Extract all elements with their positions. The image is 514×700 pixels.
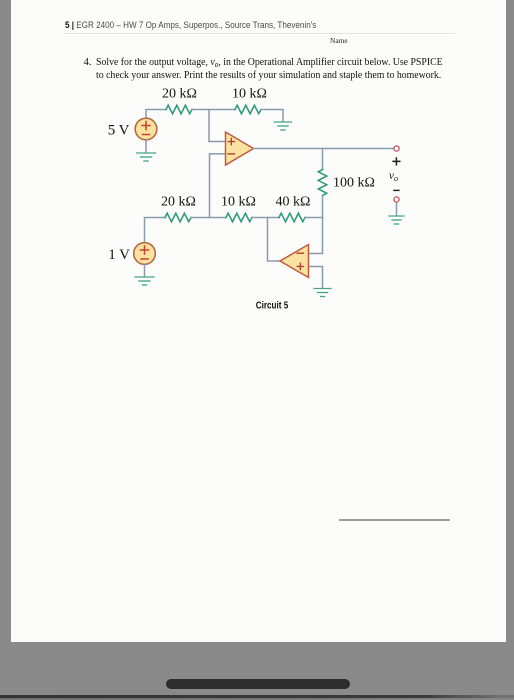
wire 100k to bottom node (322, 196, 324, 218)
wire node E down to U2 - input (309, 218, 323, 254)
wire node B down to 100k (322, 149, 324, 170)
wire node D (252, 217, 279, 219)
resistor 20k top (166, 105, 192, 113)
bottom row: 1V up to row (145, 218, 166, 244)
U1 plus input mark (228, 139, 234, 145)
svg-text:100 kΩ: 100 kΩ (333, 176, 375, 191)
svg-text:40 kΩ: 40 kΩ (276, 195, 311, 210)
resistor 10k bottom (226, 213, 252, 221)
wire 1V to ground (144, 264, 146, 276)
wire terminal to ground (396, 202, 398, 215)
label vo minus (393, 189, 399, 191)
ground 1V (135, 277, 154, 285)
ground 5V (137, 153, 156, 161)
wire 20k to node A (192, 109, 235, 111)
voltage source 1V (134, 243, 156, 265)
op-amp U1 (226, 132, 254, 165)
resistor 10k top (235, 105, 261, 113)
wire 40k to node E (305, 217, 323, 219)
resistor 100k (318, 170, 326, 196)
wire top row: source to 20k (146, 110, 166, 119)
svg-text:1 V: 1 V (108, 247, 130, 263)
bottom screen bar (166, 679, 350, 689)
wire 5V to ground (145, 140, 147, 153)
label vo plus (392, 157, 400, 165)
bottom bezel edge (0, 695, 514, 698)
wire U1 output to vo terminal (254, 148, 395, 150)
ground vo (389, 216, 404, 224)
terminal vo- (394, 197, 399, 202)
U1 minus input mark (228, 153, 234, 155)
wire U2 + input to ground (309, 267, 323, 289)
svg-text:Circuit 5: Circuit 5 (256, 300, 289, 311)
terminal vo+ (394, 146, 399, 151)
svg-text:20 kΩ: 20 kΩ (162, 87, 197, 102)
wire U1 - input down to bottom row (210, 154, 226, 218)
voltage source 5V (135, 118, 157, 140)
resistor 20k bottom (165, 213, 191, 221)
U2 minus input mark (297, 252, 303, 254)
wire to node C (191, 217, 226, 219)
svg-text:5 V: 5 V (108, 123, 130, 139)
resistor 40k (279, 213, 305, 221)
svg-text:vo: vo (389, 170, 398, 183)
svg-text:20 kΩ: 20 kΩ (161, 195, 196, 210)
bottom answer line (339, 519, 450, 521)
op-amp U2 (280, 245, 309, 278)
ground U2 (314, 289, 331, 297)
question paragraph (84, 57, 92, 68)
node A wire down to op-amp U1 + input (209, 110, 226, 142)
header line (65, 20, 425, 30)
wire node D down to U2 output (268, 218, 281, 262)
svg-text:10 kΩ: 10 kΩ (232, 87, 267, 102)
U2 plus input mark (297, 263, 303, 269)
svg-text:10 kΩ: 10 kΩ (221, 195, 256, 210)
ground top right (275, 122, 292, 130)
wire 10k to top-right ground (261, 110, 283, 122)
